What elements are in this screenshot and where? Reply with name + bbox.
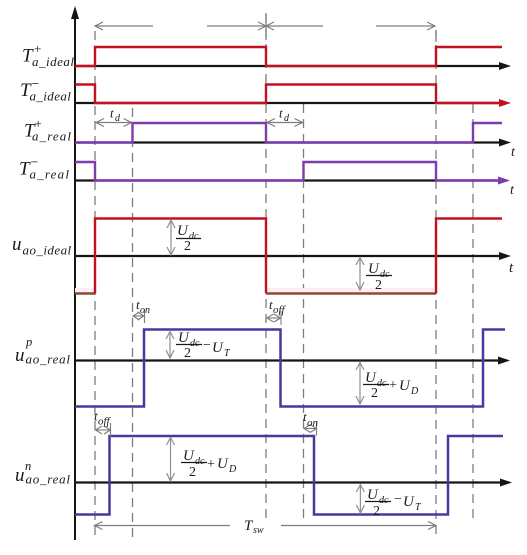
svg-text:dc: dc — [377, 378, 387, 389]
svg-text:on: on — [307, 417, 319, 429]
svg-text:ao_real: ao_real — [26, 472, 71, 487]
svg-text:U: U — [368, 261, 380, 277]
svg-text:2: 2 — [371, 386, 378, 401]
svg-text:a_ideal: a_ideal — [32, 54, 75, 69]
svg-text:D: D — [228, 464, 237, 475]
svg-text:ao_real: ao_real — [26, 352, 71, 367]
svg-text:2: 2 — [189, 465, 196, 480]
svg-text:U: U — [177, 223, 189, 239]
svg-text:off: off — [273, 304, 287, 316]
svg-text:dc: dc — [195, 456, 205, 467]
svg-text:U: U — [178, 330, 190, 346]
svg-text:a_real: a_real — [30, 167, 71, 182]
svg-text:−: − — [394, 492, 402, 507]
svg-text:U: U — [367, 487, 379, 503]
svg-text:2: 2 — [375, 278, 382, 293]
svg-text:2: 2 — [184, 346, 191, 361]
svg-text:p: p — [25, 335, 32, 349]
svg-text:u: u — [15, 465, 25, 486]
svg-text:u: u — [15, 345, 25, 366]
svg-text:ao_ideal: ao_ideal — [23, 243, 72, 258]
svg-text:u: u — [12, 234, 22, 255]
svg-text:dc: dc — [379, 495, 389, 506]
svg-text:a_real: a_real — [32, 129, 72, 144]
svg-text:D: D — [410, 386, 419, 397]
svg-text:+: + — [389, 378, 397, 393]
svg-text:2: 2 — [184, 239, 191, 254]
svg-text:sw: sw — [253, 525, 264, 536]
svg-text:−: − — [203, 338, 211, 353]
svg-text:U: U — [212, 340, 224, 356]
svg-text:t: t — [279, 106, 283, 121]
svg-text:a_ideal: a_ideal — [30, 89, 72, 104]
svg-text:t: t — [110, 106, 114, 121]
svg-text:U: U — [183, 448, 195, 464]
svg-text:U: U — [399, 378, 411, 394]
svg-text:U: U — [403, 494, 415, 510]
svg-text:dc: dc — [190, 338, 200, 349]
svg-text:on: on — [140, 305, 150, 316]
svg-text:U: U — [217, 456, 229, 472]
svg-text:off: off — [98, 416, 112, 428]
svg-text:U: U — [365, 370, 377, 386]
svg-text:2: 2 — [373, 504, 380, 519]
svg-text:+: + — [207, 457, 215, 472]
